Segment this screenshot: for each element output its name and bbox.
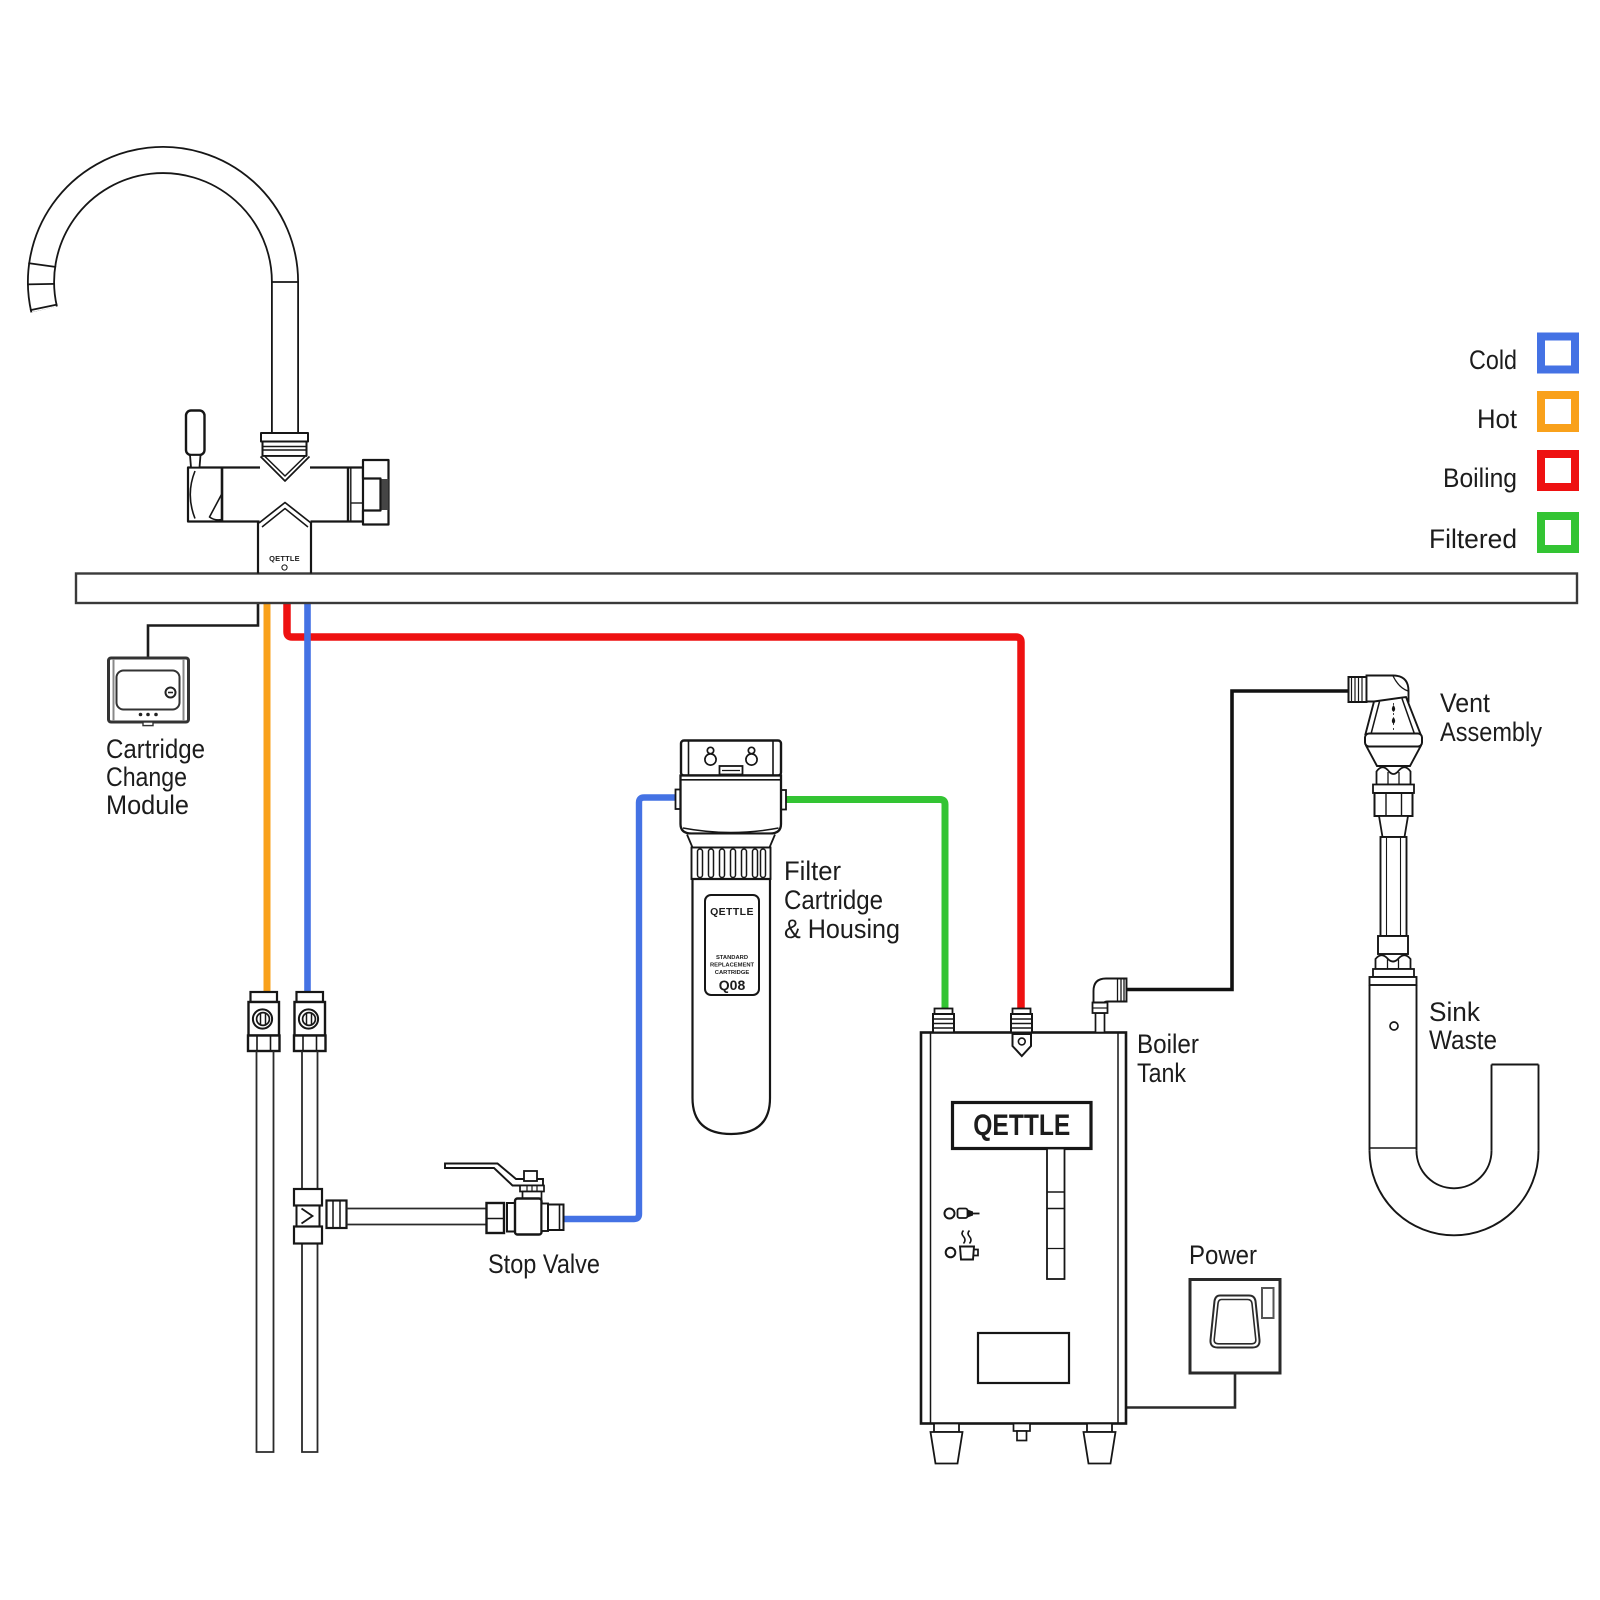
cold water pipe (blue) stop valve to filter inlet [562,798,679,1220]
sink waste standpipe [1369,985,1371,1151]
filter cartridge and housing group [676,741,787,1135]
tap top saddle joint [260,466,310,469]
bracket keyhole left [707,747,713,753]
svg-text:Waste: Waste [1429,1025,1497,1055]
cold water pipe (blue) tap to right flex fitting [304,603,311,994]
filtered water pipe (green) filter outlet to boiler tank [782,800,945,1011]
bracket keyhole right [748,747,754,753]
module button [166,688,176,698]
wire boiler tank elbow to vent assembly [1126,691,1349,990]
tap left handle (hot/cold lever) [186,411,205,456]
svg-text:Assembly: Assembly [1440,717,1542,747]
svg-text:& Housing: & Housing [784,914,900,944]
hot water pipe (orange) tap to left flex fitting [264,603,271,994]
hot flex fitting (left) [248,992,280,1051]
cold supply pipe lower segment [302,1244,318,1453]
legend [1429,337,1575,555]
stop valve ring [507,1203,515,1232]
boiler power-jack icon [945,1209,955,1219]
svg-text:Filter: Filter [784,856,841,886]
svg-text:Boiling: Boiling [1443,463,1517,493]
boiler tank group [921,979,1127,1464]
legend Cold swatch [1541,337,1575,370]
stop valve outlet [548,1205,564,1231]
tap body (horizontal cylinder) [188,468,363,522]
tap bottom saddle joint [260,520,311,524]
vent lower coupler [1378,936,1408,954]
vent pipe [1381,837,1407,936]
tap / faucet group [27,160,389,574]
module screen [117,671,180,710]
tap spout aerator band 2 [27,283,55,286]
filter ribbed collar [692,848,771,880]
svg-text:Vent: Vent [1440,688,1490,718]
sink waste standpipe cap [1370,977,1417,985]
svg-text:QETTLE: QETTLE [710,906,754,918]
tee branch nut [327,1201,347,1229]
stop valve handle lever [445,1164,543,1186]
bracket centre tab [720,766,743,775]
filter wall bracket [681,741,781,776]
filter cartridge body [693,879,771,1134]
svg-text:Change: Change [106,762,187,792]
legend Hot swatch [1541,395,1575,428]
vent washer [1373,785,1414,794]
boiler vent port and elbow [1096,1013,1105,1033]
svg-text:Q08: Q08 [719,977,746,993]
tap base column [257,522,259,574]
boiler bottom label plate [978,1333,1069,1383]
tee fitting on cold supply [294,1189,322,1244]
vent washer 2 [1373,969,1414,977]
vent reducer [1379,816,1408,837]
svg-text:REPLACEMENT: REPLACEMENT [710,963,755,969]
boiler thermostat tag [1013,1034,1032,1056]
module bottom tab [143,722,153,726]
stop valve stem nut [524,1171,537,1181]
module indicator dots [139,713,143,717]
svg-text:Filtered: Filtered [1429,524,1517,554]
stop valve body step [542,1204,549,1232]
vent skirt [1367,747,1421,767]
boiler sight tube [1047,1149,1065,1280]
boiler feet [934,1424,959,1433]
svg-text:Boiler: Boiler [1137,1029,1199,1059]
cartridge change module [109,658,189,726]
boiler hot-cup icon [946,1248,956,1258]
svg-text:Tank: Tank [1137,1058,1186,1088]
vent castellated nut [1377,767,1411,784]
wire countertop to cartridge change module [148,604,258,658]
svg-text:Cartridge: Cartridge [106,734,205,764]
svg-text:Sink: Sink [1429,997,1480,1027]
stop valve body [515,1199,542,1235]
filter inlet port (left) [676,790,682,810]
socket switch [1262,1288,1274,1318]
vent drip symbols [1392,705,1395,712]
cold supply pipe upper segment [301,1051,303,1189]
vent threaded coupling [1349,677,1367,702]
filter outlet port (right) [780,790,786,810]
tap body right separator (double) [347,468,349,522]
filter head taper [687,835,775,848]
tap collar below spout column [261,433,308,442]
tap spout aerator band 1 [28,263,56,267]
svg-text:STANDARD: STANDARD [716,955,748,961]
svg-text:Hot: Hot [1477,404,1517,434]
branch pipe to stop valve [347,1208,488,1210]
legend Boiling swatch [1541,454,1575,487]
boiler boiling outlet port (red) [1011,1009,1032,1033]
tap spout joint line (right column top) [271,281,299,283]
svg-text:Power: Power [1189,1240,1257,1270]
svg-text:CARTRIDGE: CARTRIDGE [715,970,750,976]
vent cage [1366,697,1421,734]
filter head [681,776,782,834]
boiler tank body [921,1033,1126,1424]
hot supply pipe (left, below fitting) [257,1051,274,1452]
boiling water pipe (red) tap to boiler tank [287,603,1021,1010]
svg-text:QETTLE: QETTLE [973,1109,1070,1142]
tap body lever cam diagonal [210,495,223,520]
tap gooseneck spout (arch) [41,160,285,434]
boiler QETTLE badge [953,1103,1092,1149]
supply pipes and flex fittings group [248,992,487,1452]
socket faceplate [1190,1280,1280,1374]
stop valve compression nut (left) [487,1203,505,1233]
tap right handle (boiling control) [363,460,389,525]
svg-text:Stop Valve: Stop Valve [488,1249,600,1279]
plug body (double outline) [1210,1296,1259,1348]
vent assembly and sink waste group [1349,676,1539,1236]
wire power plug to boiler tank [1126,1347,1235,1408]
vent base ring [1365,734,1422,747]
tap body left separator [221,468,224,522]
vent elbow [1367,676,1409,702]
vent castellated nut 2 [1376,955,1411,969]
svg-text:Cartridge: Cartridge [784,885,883,915]
svg-text:Module: Module [106,790,189,820]
svg-text:Cold: Cold [1469,345,1517,375]
cold flex fitting (right) [294,992,326,1051]
countertop / worktop [76,574,1577,604]
svg-text:QETTLE: QETTLE [269,554,300,563]
filter cartridge label [705,895,759,995]
power socket group [1190,1280,1280,1374]
boiler filtered inlet port (green) [933,1009,954,1033]
sink waste U-trap [1370,1151,1539,1236]
tap body left end cap arc [190,471,195,519]
legend Filtered swatch [1541,516,1575,549]
boiler drain fitting [1014,1424,1031,1432]
stop valve stem flange [520,1186,544,1192]
vent hex nut [1375,793,1413,816]
stop valve group [445,1164,564,1235]
tap spout tip edge [30,304,57,310]
